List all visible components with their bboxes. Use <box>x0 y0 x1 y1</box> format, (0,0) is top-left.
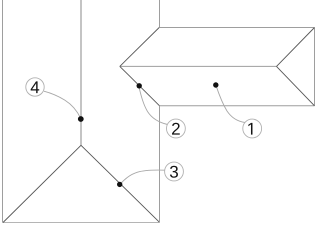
wire dormer left lower hip <box>120 66 160 105</box>
wire left eave vertical line <box>2 0 4 223</box>
callout label 2 <box>172 123 180 135</box>
wire right eave vertical line <box>159 106 161 223</box>
wire dormer bottom edge <box>159 105 314 107</box>
node dot 3 <box>117 182 122 187</box>
wire main ridge vertical line <box>80 0 82 146</box>
leader 1 spline <box>216 85 245 122</box>
wire dormer right edge <box>314 28 316 106</box>
callout circle 4 <box>26 78 44 96</box>
node dot 2 <box>137 83 142 88</box>
node dot 1 <box>213 82 218 87</box>
callout label 1 <box>248 123 252 135</box>
wire lower-right hip diagonal <box>81 145 160 222</box>
wire dormer left upper hip <box>120 28 159 67</box>
callout label 3 <box>170 166 178 178</box>
callout label 4 <box>31 81 40 93</box>
callout circle 1 <box>243 119 262 138</box>
wire dormer right lower hip <box>277 66 315 105</box>
leader 4 spline <box>44 91 81 118</box>
wire bottom eave horizontal line <box>3 222 160 224</box>
wire lower-left hip diagonal <box>3 145 81 222</box>
node dot 4 <box>78 116 84 122</box>
wire dormer top edge <box>159 27 314 29</box>
wire dormer right upper hip <box>277 28 315 67</box>
leader 2 spline <box>139 85 168 125</box>
wire upper short vertical line <box>159 0 161 28</box>
callout circle 3 <box>165 162 184 181</box>
callout circle 2 <box>167 119 186 138</box>
wire dormer ridge horizontal <box>120 65 277 67</box>
leader 3 spline <box>120 170 165 185</box>
